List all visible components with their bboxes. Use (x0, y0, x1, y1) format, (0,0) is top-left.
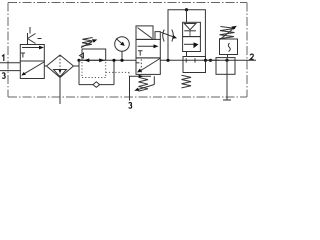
check valve outlet stub (189, 31, 191, 37)
valve V1 top position box (20, 45, 44, 62)
filter F1 diamond (47, 55, 74, 78)
port 3 line (0, 70, 20, 72)
regulator R1 pilot dashed left (81, 62, 83, 78)
valve V2 port stub (136, 62, 140, 64)
lower position box (183, 57, 206, 73)
valve V2 blocked port mark (138, 51, 143, 56)
relief valve RV1 spring (219, 27, 235, 39)
valve V2 position box closed (136, 58, 160, 75)
relief valve RV1 body (220, 39, 238, 55)
valve V2 position box open (136, 39, 160, 58)
filter F1 separator triangle (54, 70, 67, 77)
exhaust end bar (223, 99, 231, 101)
port 2 label (250, 54, 253, 59)
regulator relief vent diamond (93, 82, 100, 88)
valve V2 pilot piston box (136, 26, 153, 40)
pilot line from top (186, 10, 188, 23)
coupling tick left (185, 58, 187, 62)
node block right (204, 59, 207, 62)
valve V1 bottom box exhaust arrow (24, 62, 45, 74)
valve V1 lever stem (29, 27, 31, 34)
filter F1 element dashed (59, 56, 61, 78)
regulator R1 exhaust triangle (80, 53, 84, 58)
throttle TH1 arcs (163, 30, 174, 42)
node gauge (120, 59, 123, 62)
valve V2 pilot feed line (129, 76, 154, 84)
outlet block box (216, 58, 235, 75)
regulator relief line left (78, 60, 80, 84)
pilot line to main (186, 52, 188, 57)
node at regulator inlet (77, 59, 80, 62)
main line through lower box (183, 59, 219, 61)
regulator relief line bottom (79, 84, 114, 86)
valve V2 pilot control dotted (106, 72, 129, 76)
valve V2 stroke dashes (140, 59, 142, 73)
regulator R1 pilot dashed right (105, 62, 107, 78)
port 3 bottom label (129, 103, 132, 109)
throttle box arrow (184, 43, 195, 45)
regulator relief line right (113, 60, 115, 84)
gauge G1 circle (115, 37, 130, 52)
valve V1 top box blocked port (21, 53, 25, 58)
gauge G1 needle (116, 39, 122, 44)
check valve box (183, 22, 201, 36)
valve V1 top box flow arrow (22, 47, 41, 49)
node relief right (112, 59, 115, 62)
regulator R1 body box (82, 49, 106, 60)
valve V2 return spring (139, 77, 149, 91)
lower box return spring (182, 75, 192, 88)
valve V2 exhaust line down (129, 76, 131, 100)
throttle box (183, 37, 201, 52)
regulator R1 seat arrows (84, 58, 89, 62)
check valve triangle (184, 24, 196, 30)
valve V2 open flow arrow (138, 45, 156, 47)
filter F1 drain line (59, 78, 61, 105)
gauge G1 stem (121, 51, 123, 60)
node block top (185, 8, 188, 11)
main line through regulator (79, 59, 136, 61)
check valve seat (184, 30, 196, 32)
soft start block outer box (168, 10, 205, 61)
exhaust line down (226, 58, 228, 100)
valve V2 pilot piston diagonal (138, 28, 153, 39)
port 1 line (0, 62, 20, 64)
throttle TH1 arrow (161, 32, 173, 36)
relief valve RV1 spring arrow (220, 29, 233, 39)
regulator R1 spring arrow (81, 42, 93, 48)
wire filter to regulator (74, 60, 80, 66)
relief valve RV1 seat mark (228, 43, 230, 52)
line through outlet block (205, 59, 235, 61)
node outlet (225, 59, 228, 62)
node outlet branch (209, 59, 212, 62)
wire valve V1 to filter (44, 65, 46, 67)
regulator R1 pilot dashed bottom (82, 77, 106, 79)
node block left (166, 59, 169, 62)
port 1 label (2, 55, 4, 61)
relief stem (227, 55, 229, 58)
main line valve V2 to block (160, 59, 183, 61)
valve V1 lever handle (28, 33, 42, 44)
valve V2 spring adjust arrow (138, 85, 154, 90)
port 3 label (2, 73, 5, 79)
valve V1 bottom position box (20, 61, 44, 79)
valve V2 air pilot square (155, 32, 160, 40)
main line to port 2 (235, 59, 256, 61)
valve V2 closed diagonal arrow (140, 59, 160, 72)
enclosure dash-dot frame (8, 3, 247, 98)
coupling tick right (194, 58, 196, 62)
regulator R1 adjustable spring (82, 38, 93, 47)
filter F1 drain dot (59, 70, 61, 72)
